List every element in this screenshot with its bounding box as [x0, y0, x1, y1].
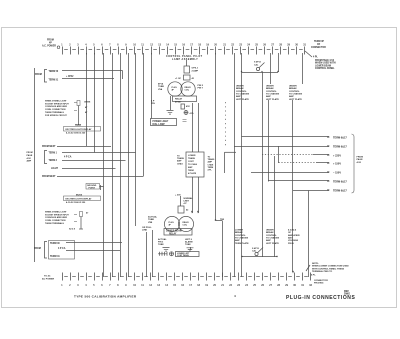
- svg-text:4-52: 4-52: [357, 161, 362, 164]
- svg-text:PIN B: PIN B: [288, 243, 294, 245]
- svg-text:CONTROL PANEL: CONTROL PANEL: [315, 67, 335, 70]
- svg-text:DIAL LAMP: DIAL LAMP: [153, 123, 166, 126]
- svg-text:TUBE: TUBE: [158, 244, 164, 246]
- svg-text:4-10-52 1000 Ω 220: 4-10-52 1000 Ω 220: [66, 132, 86, 135]
- svg-text:AMP: AMP: [208, 161, 213, 164]
- svg-text:47K: 47K: [186, 105, 190, 108]
- svg-text:CONT: CONT: [188, 161, 194, 163]
- svg-text:LINE: LINE: [142, 230, 148, 232]
- svg-text:PIN: PIN: [151, 103, 155, 105]
- svg-text:PAGE: PAGE: [27, 154, 33, 157]
- svg-text:PLUG-IN CONNECTIONS: PLUG-IN CONNECTIONS: [286, 295, 355, 301]
- svg-text:S 4P13: S 4P13: [252, 247, 260, 250]
- svg-text:4P14: 4P14: [158, 83, 164, 86]
- svg-text:TUBE: TUBE: [148, 219, 154, 221]
- svg-text:TO CHASSIS: TO CHASSIS: [236, 92, 250, 95]
- svg-text:4 P CA: 4 P CA: [58, 247, 66, 250]
- svg-text:+ 150V: + 150V: [333, 162, 341, 165]
- svg-text:+ 300: + 300: [175, 194, 181, 196]
- svg-text:4 (CR) 4: 4 (CR) 4: [288, 229, 297, 232]
- svg-text:PAGE: PAGE: [357, 158, 364, 161]
- svg-text:EXCITER LIGHT DISPLAY: EXCITER LIGHT DISPLAY: [66, 197, 93, 200]
- svg-text:NORMAL: NORMAL: [184, 197, 194, 200]
- svg-text:LAMP ASSEMBLY: LAMP ASSEMBLY: [172, 58, 198, 61]
- svg-text:TRANS: TRANS: [188, 157, 196, 160]
- svg-text:CAL: CAL: [254, 63, 259, 66]
- svg-text:POINT: POINT: [89, 187, 96, 189]
- svg-text:SOCKET SPEECH INPUT: SOCKET SPEECH INPUT: [45, 214, 69, 216]
- svg-text:4 PL: 4 PL: [190, 112, 195, 115]
- svg-text:AMP: AMP: [266, 239, 271, 242]
- svg-text:TERM 4P: TERM 4P: [314, 40, 324, 43]
- svg-text:POWER LIGHT: POWER LIGHT: [153, 121, 169, 123]
- svg-text:4 PL: 4 PL: [313, 56, 318, 59]
- svg-text:AMP: AMP: [266, 95, 271, 98]
- svg-text:2 AMP: 2 AMP: [192, 69, 199, 72]
- svg-text:A.C. POWER: A.C. POWER: [42, 45, 56, 48]
- svg-text:AMP: AMP: [289, 95, 294, 98]
- svg-text:S 4P13: S 4P13: [254, 61, 262, 64]
- svg-text:4 PLATE: 4 PLATE: [188, 172, 197, 175]
- svg-text:V5B: V5B: [148, 222, 153, 224]
- svg-text:WHEN 4 PANEL LIGHT: WHEN 4 PANEL LIGHT: [45, 211, 67, 214]
- svg-text:TO CHAS: TO CHAS: [188, 163, 198, 166]
- svg-text:TO CHASSIS: TO CHASSIS: [235, 236, 249, 239]
- svg-text:TUBE: TUBE: [158, 86, 164, 88]
- svg-text:FROM NEXT: FROM NEXT: [42, 176, 56, 178]
- svg-text:BREAK: BREAK: [266, 231, 274, 234]
- svg-text:FROM NEXT: FROM NEXT: [42, 146, 56, 148]
- svg-text:FROM: FROM: [27, 152, 33, 154]
- svg-text:TO CHASSIS: TO CHASSIS: [289, 92, 303, 95]
- svg-text:LEFT PLATE: LEFT PLATE: [266, 242, 279, 245]
- svg-text:CONNECTOR: CONNECTOR: [311, 47, 326, 49]
- svg-text:SOCKET SPEECH INPUT: SOCKET SPEECH INPUT: [45, 103, 69, 105]
- svg-text:LEFT PLATE: LEFT PLATE: [236, 98, 249, 101]
- svg-text:TERM 1: TERM 1: [49, 153, 58, 155]
- svg-text:BREAK: BREAK: [266, 87, 274, 90]
- svg-text:AMP: AMP: [177, 160, 182, 163]
- svg-text:TYPE 500 CALIBRATION AMPLIFIER: TYPE 500 CALIBRATION AMPLIFIER: [74, 295, 137, 299]
- svg-text:S2 4 9: S2 4 9: [69, 228, 76, 231]
- svg-text:RELAY: RELAY: [169, 232, 177, 235]
- svg-text:4 P: 4 P: [151, 100, 155, 103]
- svg-text:FOR SPEECH CIRCUIT: FOR SPEECH CIRCUIT: [45, 115, 67, 117]
- svg-text:TERM 41: TERM 41: [50, 255, 60, 258]
- svg-text:EXCITER LIGHT DISPLAY: EXCITER LIGHT DISPLAY: [66, 128, 93, 131]
- svg-text:TERM PLATE: TERM PLATE: [235, 242, 249, 245]
- svg-text:OPS-1: OPS-1: [192, 68, 199, 70]
- svg-text:CONSOLES ARE USED: CONSOLES ARE USED: [45, 105, 68, 108]
- svg-text:CAL: CAL: [252, 250, 257, 253]
- svg-text:CHAS: CHAS: [177, 162, 183, 165]
- svg-text:BUSS: BUSS: [76, 194, 83, 196]
- svg-text:LOWER BEAM: LOWER BEAM: [166, 229, 182, 232]
- svg-text:ANY: ANY: [288, 236, 293, 239]
- svg-text:4-10-52 1000 Ω 220: 4-10-52 1000 Ω 220: [66, 201, 86, 204]
- svg-text:FROM: FROM: [34, 248, 41, 250]
- svg-text:CONT PANEL: CONT PANEL: [177, 254, 190, 257]
- svg-text:TO CHASSIS: TO CHASSIS: [266, 236, 280, 239]
- svg-text:BREAK: BREAK: [236, 87, 244, 90]
- svg-text:FROM: FROM: [35, 74, 42, 76]
- svg-text:VOLTAGE: VOLTAGE: [288, 239, 299, 242]
- svg-text:RELAY: RELAY: [175, 98, 183, 101]
- svg-text:− 150V: − 150V: [333, 171, 341, 174]
- svg-text:CONN. CONNECTION: CONN. CONNECTION: [45, 220, 66, 222]
- svg-text:TERM 6&17: TERM 6&17: [333, 189, 347, 192]
- svg-text:TERM: TERM: [188, 170, 194, 172]
- svg-text:WHEN 4 PANEL LIGHT: WHEN 4 PANEL LIGHT: [45, 100, 67, 103]
- svg-text:LOWER BEAM: LOWER BEAM: [315, 64, 331, 67]
- svg-text:+ 225V: + 225V: [333, 154, 341, 157]
- svg-text:BREAK: BREAK: [235, 231, 243, 234]
- svg-text:FROM: FROM: [47, 40, 54, 42]
- svg-text:AMP: AMP: [27, 160, 32, 163]
- svg-text:CHAS: CHAS: [208, 163, 214, 166]
- svg-text:+1 OF: +1 OF: [175, 78, 182, 80]
- svg-text:TERMINAL PINS TO: TERMINAL PINS TO: [312, 270, 332, 273]
- svg-text:THESE TERMINALS: THESE TERMINALS: [45, 222, 65, 225]
- svg-text:TERM 6&17: TERM 6&17: [333, 136, 347, 139]
- svg-text:OHMS: OHMS: [84, 102, 91, 104]
- svg-text:TRANS: TRANS: [177, 157, 185, 160]
- svg-text:V5A: V5A: [158, 88, 163, 91]
- svg-text:PIN 7: PIN 7: [198, 88, 204, 90]
- svg-text:TERM 2: TERM 2: [49, 160, 58, 162]
- svg-text:4P: 4P: [49, 41, 52, 44]
- svg-text:WITH CONTROL PANEL THESE: WITH CONTROL PANEL THESE: [312, 267, 345, 270]
- svg-text:AC POWER: AC POWER: [42, 277, 54, 280]
- svg-text:+ 4P42: + 4P42: [66, 75, 74, 78]
- svg-text:TERM 50: TERM 50: [49, 71, 59, 73]
- svg-text:ACTUAL: ACTUAL: [148, 216, 158, 219]
- svg-text:FROM: FROM: [357, 157, 364, 159]
- svg-text:BUSS: BUSS: [75, 125, 82, 127]
- svg-text:TUBE: TUBE: [185, 244, 191, 246]
- svg-text:LEFT PLATE: LEFT PLATE: [289, 98, 302, 101]
- svg-text:AMP: AMP: [188, 166, 193, 169]
- svg-text:4 P CA: 4 P CA: [64, 156, 72, 159]
- svg-text:LEFT PLATE: LEFT PLATE: [266, 98, 279, 101]
- svg-text:AMPLIFIER: AMPLIFIER: [288, 234, 300, 237]
- svg-text:ALARM: ALARM: [185, 241, 193, 244]
- svg-text:TERM 51: TERM 51: [49, 79, 59, 81]
- svg-text:TERM 6&17: TERM 6&17: [333, 180, 347, 183]
- svg-text:BREAK: BREAK: [289, 87, 297, 90]
- svg-text:PIN 2: PIN 2: [198, 85, 204, 87]
- svg-text:CONSOLES ARE USED: CONSOLES ARE USED: [45, 216, 68, 219]
- svg-text:WHEN USED WITH: WHEN USED WITH: [315, 63, 336, 65]
- svg-text:THESE TERMINALS: THESE TERMINALS: [45, 111, 65, 114]
- svg-text:LOWER: LOWER: [188, 155, 196, 157]
- svg-text:AMP: AMP: [236, 95, 241, 98]
- svg-text:TO CHASSIS: TO CHASSIS: [266, 92, 280, 95]
- svg-text:ACTUAL: ACTUAL: [158, 238, 167, 241]
- svg-text:CONN. CONNECTION: CONN. CONNECTION: [45, 109, 66, 111]
- svg-text:4 PL: 4 PL: [311, 274, 316, 277]
- svg-text:TERM 40: TERM 40: [50, 242, 60, 245]
- svg-text:4P457: 4P457: [175, 100, 182, 103]
- svg-text:FROM PAGE 4-52: FROM PAGE 4-52: [315, 59, 335, 62]
- svg-text:TRANS: TRANS: [208, 158, 216, 161]
- svg-text:OR PULL: OR PULL: [142, 227, 152, 229]
- svg-text:PIN DWG: PIN DWG: [314, 283, 324, 285]
- svg-text:LIGHT: LIGHT: [51, 168, 58, 170]
- svg-text:AMP: AMP: [235, 239, 240, 242]
- svg-text:TO 4C: TO 4C: [44, 274, 51, 277]
- svg-text:TERM 6&17: TERM 6&17: [333, 145, 347, 148]
